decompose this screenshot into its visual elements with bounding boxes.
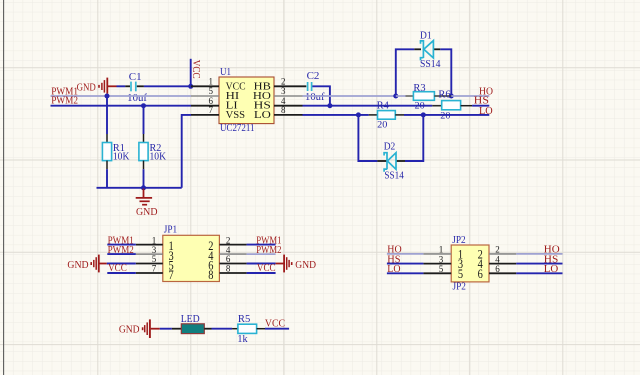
wire LO to JP2 [387,264,424,275]
svg-text:3: 3 [439,254,444,264]
JP2 pin 5 [423,272,451,274]
svg-text:6: 6 [495,264,500,274]
svg-text:5: 5 [439,264,444,274]
svg-text:GND: GND [295,260,316,271]
svg-text:C1: C1 [129,72,142,83]
svg-text:D2: D2 [384,142,396,153]
resistor R5 [232,314,265,345]
JP1 pin 5 [136,263,163,265]
JP1 pin 8 [219,272,246,274]
svg-text:JP2: JP2 [453,281,466,292]
svg-text:5: 5 [152,254,157,264]
U1 pin 4 [274,105,303,107]
JP1 pin 1 [136,244,163,246]
node D1 cathode junction [449,94,454,99]
svg-text:JP1: JP1 [164,225,177,236]
svg-text:GND: GND [67,260,88,271]
JP2 pin 3 [423,263,451,265]
JP2 pin 2 [489,253,516,255]
svg-text:HS: HS [474,96,489,107]
U1 pin 8 [274,114,303,116]
svg-text:10K: 10K [113,152,130,163]
wire LED to R5 [212,328,233,330]
svg-text:3: 3 [281,86,286,96]
svg-text:10uf: 10uf [305,92,325,103]
sheet border left edge [3,0,5,375]
svg-text:1: 1 [152,235,157,245]
connector JP2 body [451,245,489,282]
svg-text:7: 7 [152,264,157,274]
power ground port GND (JP1 right) [276,255,316,273]
wire bottom bus to GND [97,187,182,189]
node C2/HS junction [327,103,332,108]
wire PWM1 [51,87,192,98]
svg-text:LO: LO [254,110,271,121]
svg-text:GND: GND [77,83,96,94]
svg-text:5: 5 [209,86,214,96]
wire PWM2 [51,95,192,106]
svg-text:20: 20 [440,112,450,122]
JP2 pin 4 [489,263,516,265]
svg-text:R3: R3 [413,83,425,94]
svg-text:R5: R5 [238,314,250,325]
wire JP1 pin6 to GND [247,263,276,265]
capacitor C2 [305,71,325,103]
svg-text:10K: 10K [150,152,167,163]
wire JP2 pin4 HS [516,254,562,265]
svg-text:1k: 1k [237,334,247,345]
svg-text:6: 6 [226,254,231,264]
JP1 pin 7 [136,272,163,274]
svg-text:SS14: SS14 [384,171,403,182]
op-amp U1 body [219,77,274,124]
svg-text:2: 2 [226,235,231,245]
svg-text:SS14: SS14 [420,59,440,70]
resistor R1 [102,96,130,188]
connector JP1 body [163,235,220,281]
wire JP1 pin4 PWM2 [247,245,282,256]
U1 pin names [226,81,272,121]
wire GND to LED [160,328,172,330]
JP1 pin 6 [219,263,246,265]
wire C1 to pin1 junction [144,85,191,87]
U1 pin 1 [191,85,219,87]
power ground port GND (top left) [77,78,117,94]
wire D1 left leg [396,49,415,96]
power ground port GND (bottom) [119,319,160,338]
wire PWM1 to JP1 [107,235,136,246]
svg-text:2: 2 [495,245,500,255]
wire LO to port [404,114,489,116]
svg-text:R4: R4 [377,101,389,112]
svg-text:8: 8 [226,264,231,274]
wire JP2 pin2 HO [516,245,562,256]
wire VCC to JP1 [107,263,136,274]
svg-text:LED: LED [181,314,200,325]
svg-text:4: 4 [495,254,500,264]
wire D1 right leg [440,49,451,96]
svg-text:U1: U1 [220,67,231,78]
JP1 pin 2 [219,244,246,246]
power ground port GND (JP1 left) [67,255,106,273]
wire JP1 pin8 VCC [247,263,276,274]
wire GND to JP1 pin5 [107,263,136,265]
resistor R6 [438,90,472,122]
wire HO net [303,95,396,97]
svg-text:10uf: 10uf [127,93,148,104]
svg-text:6: 6 [478,266,484,281]
JP1 pin numbers right [226,235,231,273]
U1 pin 5 [191,95,219,97]
power port VCC (vertical) [190,59,201,87]
node D2 left junction [356,112,361,117]
svg-text:GND: GND [119,324,140,335]
JP1 inside pin numbers [169,238,214,282]
node D1 anode junction [393,94,398,99]
ground symbol (earth) [136,189,158,219]
node PWM1/R1 junction [105,94,110,99]
wire PWM2 to JP1 [107,245,136,256]
svg-text:R6: R6 [438,90,450,101]
capacitor C1 [125,72,148,104]
U1 pin 6 [191,105,219,107]
svg-text:VCC: VCC [265,319,286,330]
svg-text:PWM2: PWM2 [51,95,78,106]
wire JP2 pin6 LO [516,264,562,275]
svg-text:C2: C2 [307,71,320,82]
svg-text:7: 7 [169,267,175,282]
node PWM2/R2 junction [141,103,146,108]
wire GND to C1 [117,85,126,87]
svg-text:VSS: VSS [226,110,246,121]
svg-text:VCC: VCC [190,60,201,79]
wire JP1 pin2 PWM1 [247,235,282,246]
wire C2 to HS [312,86,330,105]
wire HO to JP2 [387,245,424,256]
resistor R3 [396,83,452,112]
svg-text:8: 8 [208,267,213,282]
JP2 pin numbers left [439,245,444,274]
U1 pin 2 [274,85,306,87]
JP2 pin numbers right [495,245,500,274]
wire R5 to VCC [265,328,289,330]
JP2 inside pin numbers [458,246,483,280]
diode D1 [414,31,440,70]
JP2 pin 6 [489,272,516,274]
wire D2 left leg [358,115,377,161]
svg-text:20: 20 [377,121,387,131]
svg-text:5: 5 [458,266,463,281]
JP2 pin 1 [423,253,451,255]
wire HS to port [472,105,489,107]
svg-text:1: 1 [209,76,214,86]
JP1 pin 4 [219,253,246,255]
U1 pin 7 [191,114,219,116]
svg-text:GND: GND [136,207,158,218]
svg-text:D1: D1 [420,31,432,42]
JP1 pin numbers left [152,235,157,273]
node GND junction [141,185,146,190]
LED D3 [172,314,212,333]
resistor R2 [139,106,167,188]
wire HS net [303,105,433,107]
diode D2 [377,142,405,182]
resistor R4 [369,101,404,131]
wire D2 right leg [405,115,423,161]
svg-text:1: 1 [439,245,444,255]
wire HO to port [451,95,489,97]
JP1 pin 3 [136,253,163,255]
svg-text:JP2: JP2 [452,235,465,246]
U1 pin 3 [274,95,303,97]
svg-text:2: 2 [281,76,286,86]
wire HS to JP2 [387,254,424,265]
wire LO net [303,114,369,116]
node VCC junction [188,84,193,89]
wire VSS route [182,115,191,188]
svg-text:LO: LO [479,106,493,117]
node D2 right junction [421,112,426,117]
svg-text:UC27211: UC27211 [220,123,255,134]
U1 pin numbers [209,76,287,115]
